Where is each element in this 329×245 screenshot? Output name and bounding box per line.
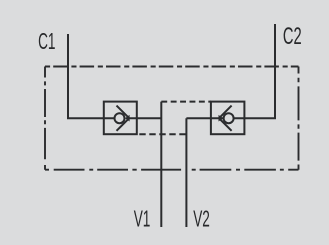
check valve CV1 box [104,102,137,135]
svg-text:C1: C1 [38,29,55,55]
check valve CV1 ball [115,113,125,123]
wire node V2 to CV2 [186,117,223,119]
envelope right edge [298,67,300,170]
valve body envelope (dash-dot boundary) [45,67,299,170]
wire V2 riser [185,118,187,227]
envelope top edge [45,66,299,68]
check valve CV1 seat chevron [117,106,130,131]
wire CV2 to port C2 [234,24,275,118]
check valve CV2 box [211,102,245,135]
check valve CV2 ball [224,113,234,123]
check valve CV2 seat wedge [219,115,224,122]
svg-text:C2: C2 [283,24,302,51]
envelope bottom edge [45,169,299,171]
check valve CV1 seat wedge [125,115,130,122]
pilot line V2 to CV1 (dashed) [139,133,186,135]
wire CV1 to node V1 [129,117,161,119]
port C1 wire [68,34,115,118]
pilot line V1 to CV2 (dashed) [161,101,211,103]
envelope left edge [44,67,46,170]
wire V1 riser [160,102,162,227]
svg-text:V1: V1 [134,207,151,233]
svg-text:V2: V2 [193,207,210,233]
check valve CV2 seat chevron [219,106,232,131]
